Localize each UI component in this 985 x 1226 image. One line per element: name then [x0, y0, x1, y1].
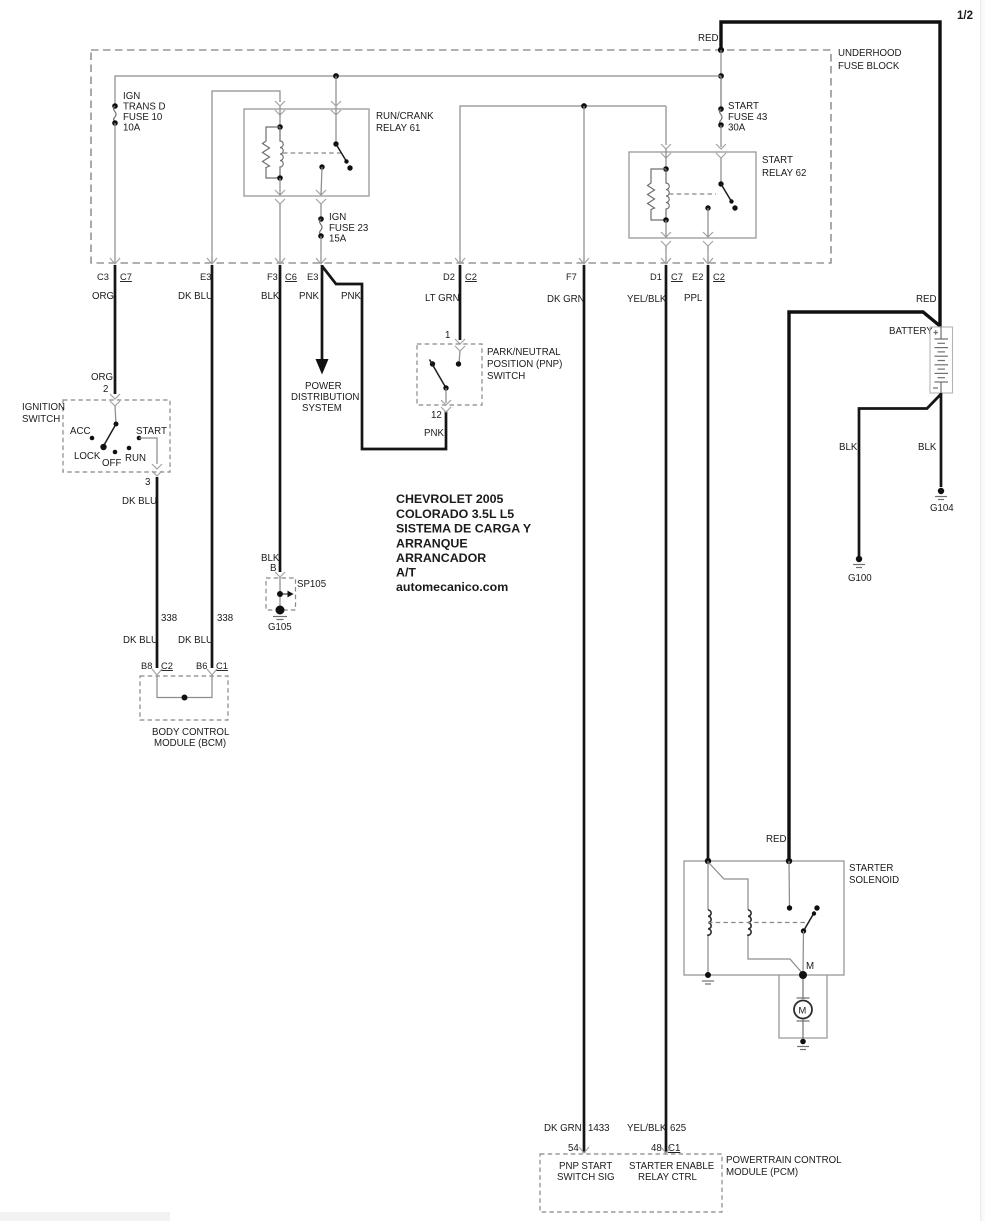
svg-text:338: 338	[217, 613, 233, 624]
svg-text:D2: D2	[443, 272, 455, 282]
actuator dashed link relay 62	[669, 193, 716, 195]
wire: motor to ground	[802, 1019, 804, 1039]
svg-text:STARTER ENABLE: STARTER ENABLE	[629, 1161, 715, 1172]
wire: LT GRN from D2/C2 to PNP pin 1	[459, 265, 462, 340]
svg-text:M: M	[806, 961, 814, 972]
wire: relay 62 switch output to box edge	[707, 208, 709, 237]
svg-text:DK GRN: DK GRN	[547, 294, 585, 305]
svg-text:DK GRN: DK GRN	[544, 1123, 582, 1134]
actuator dashed link solenoid	[708, 922, 806, 924]
svg-text:54: 54	[568, 1143, 579, 1154]
svg-text:IGNITION: IGNITION	[22, 402, 65, 413]
wire: run/crank relay switch feed drop	[335, 76, 337, 144]
wire: relay 62 coil bottom to box edge	[665, 220, 667, 237]
wire: run/crank relay coil feed net (E3 to relay pin)	[212, 91, 280, 263]
svg-text:B6: B6	[196, 661, 207, 671]
wire: BLK battery negative to G104	[940, 393, 943, 487]
relay U: RUN/CRANK RELAY 61 box	[244, 109, 369, 196]
node: splice junction with arrow	[277, 591, 283, 597]
svg-text:RUN/CRANK: RUN/CRANK	[376, 111, 434, 122]
svg-text:DK BLU: DK BLU	[178, 291, 213, 302]
switch S: PNP switch dashed box	[417, 344, 482, 405]
ground G104	[938, 488, 944, 494]
switch: relay 62 contacts	[720, 158, 722, 184]
arrowhead: to POWER DISTRIBUTION SYSTEM	[316, 359, 329, 375]
switch: relay 61 contacts	[333, 141, 338, 146]
ground: starter motor	[800, 1039, 806, 1045]
svg-text:F3: F3	[267, 272, 278, 282]
svg-text:COLORADO 3.5L L5: COLORADO 3.5L L5	[396, 507, 514, 521]
BCM dashed box	[140, 676, 228, 720]
svg-text:STARTER: STARTER	[849, 863, 893, 874]
BCM internal circuit	[157, 676, 212, 698]
node: BCM internal junction	[182, 695, 188, 701]
svg-text:PNK: PNK	[299, 291, 319, 302]
svg-text:IGN: IGN	[329, 212, 346, 223]
wire: F7 drop	[583, 106, 585, 263]
wire: PNK to power distribution (arrow)	[321, 265, 324, 361]
node: M terminal	[799, 971, 807, 979]
terminal marks: relay 62 top pin (coil)	[661, 144, 671, 158]
coil: relay 61 coil winding (right branch)	[280, 127, 283, 178]
svg-text:E3: E3	[307, 272, 318, 282]
terminal marks: relay 61 bottom pin (switch out)	[316, 190, 326, 204]
wire: relay 61 coil return to F3/C6 exit	[279, 204, 281, 263]
node: RED entry junction	[786, 858, 792, 864]
svg-text:SISTEMA DE CARGA Y: SISTEMA DE CARGA Y	[396, 522, 532, 536]
node: relay 62 coil top	[663, 166, 669, 172]
wire: ORG ignition feed	[114, 265, 117, 394]
svg-text:G104: G104	[930, 503, 954, 514]
wire: solenoid pull-in coil feed	[707, 861, 709, 910]
svg-text:TRANS D: TRANS D	[123, 102, 166, 113]
node: START position	[137, 436, 142, 441]
coil: relay 62 coil winding (right branch)	[666, 169, 669, 220]
svg-text:RUN: RUN	[125, 453, 146, 464]
svg-text:BODY CONTROL: BODY CONTROL	[152, 727, 230, 738]
svg-text:MODULE (BCM): MODULE (BCM)	[154, 738, 226, 749]
svg-text:M: M	[799, 1006, 807, 1016]
svg-text:START: START	[762, 155, 793, 166]
terminal chevron ignition pin 3	[152, 464, 162, 476]
terminal marks: relay 61 top pin (coil)	[275, 101, 285, 115]
svg-text:BLK: BLK	[839, 442, 858, 453]
svg-text:SYSTEM: SYSTEM	[302, 403, 342, 414]
svg-text:RELAY 61: RELAY 61	[376, 123, 420, 134]
terminal chevrons into BCM	[152, 669, 162, 675]
starter motor box	[779, 975, 827, 1038]
terminal marks: relay 61 bottom pin (coil)	[275, 190, 285, 204]
svg-text:RELAY CTRL: RELAY CTRL	[638, 1172, 697, 1183]
wire: PNP pin 12 stub	[445, 388, 447, 403]
wire: hold-in coil to ground	[707, 936, 709, 974]
svg-text:DK BLU: DK BLU	[178, 635, 213, 646]
svg-text:ARRANQUE: ARRANQUE	[396, 537, 468, 551]
node: F7 branch junction	[581, 103, 587, 109]
wire: solenoid output to M terminal	[802, 931, 805, 974]
svg-text:C2: C2	[465, 272, 477, 282]
wire: PNK crank feed to PNP switch pin 12	[322, 266, 446, 449]
wire: DK GRN PNP sense F7 to PCM 54	[583, 265, 586, 1153]
wire: DK BLU E3 to BCM	[211, 265, 214, 668]
svg-text:PNP START: PNP START	[559, 1161, 612, 1172]
svg-text:BLK: BLK	[918, 442, 937, 453]
svg-text:PNK: PNK	[424, 428, 444, 439]
wire: start relay coil feed stub	[665, 106, 667, 145]
svg-text:ORG: ORG	[92, 291, 114, 302]
starter solenoid box	[684, 861, 844, 975]
coil: solenoid pull-in winding	[748, 910, 751, 936]
svg-text:30A: 30A	[728, 123, 746, 134]
wire: relay 62 coil pin stub	[665, 149, 667, 169]
wire: relay 62 switch out to E2/C2 exit	[707, 246, 709, 263]
svg-text:BLK: BLK	[261, 291, 280, 302]
svg-text:C7: C7	[671, 272, 683, 282]
svg-text:338: 338	[161, 613, 177, 624]
wire: START contact to pin 3	[139, 438, 157, 464]
svg-text:START: START	[728, 101, 759, 112]
wire: relay 61 switch output down to IGN FUSE 23	[320, 204, 322, 219]
svg-text:RELAY 62: RELAY 62	[762, 168, 806, 179]
svg-text:OFF: OFF	[102, 458, 121, 469]
wire: internal supply bus y=76	[115, 76, 721, 106]
resistor: relay 61 suppression resistor (left branch)	[263, 127, 281, 178]
motor brush mark top	[797, 997, 810, 999]
terminal chevron PNP pin 12	[441, 400, 451, 412]
fuse: IGN TRANS D FUSE 10 10A	[112, 103, 118, 109]
node: PNP common contact	[430, 361, 435, 366]
svg-text:RED: RED	[766, 834, 786, 845]
svg-text:automecanico.com: automecanico.com	[396, 580, 508, 594]
wire: relay 62 coil return to D1/C7 exit	[665, 246, 667, 263]
svg-text:MODULE (PCM): MODULE (PCM)	[726, 1167, 798, 1178]
svg-text:SWITCH SIG: SWITCH SIG	[557, 1172, 615, 1183]
wire: RED battery feed, top run	[721, 22, 940, 327]
ground G105	[276, 606, 285, 615]
wire: pull-in coil to M terminal	[748, 936, 803, 974]
node: relay 61 coil top	[277, 124, 283, 130]
terminal marks: relay 62 top pin (switch)	[716, 144, 726, 158]
node: bus junction at x721	[718, 73, 724, 79]
node: PPL entry junction	[705, 858, 711, 864]
battery internal stub bottom	[940, 382, 942, 393]
svg-text:D1: D1	[650, 272, 662, 282]
svg-text:C7: C7	[120, 272, 132, 282]
node: ignition rotor pivot	[114, 422, 119, 427]
wire: relay 61 switch output to box edge	[321, 167, 322, 195]
svg-text:POWER: POWER	[305, 381, 342, 392]
svg-text:SWITCH: SWITCH	[22, 414, 60, 425]
terminal marks: relay 61 top pin (switch)	[331, 101, 341, 115]
page edge shading	[980, 0, 982, 1221]
svg-text:2: 2	[103, 384, 108, 395]
svg-text:FUSE 43: FUSE 43	[728, 112, 767, 123]
wire: fuse 23 output to E3 exit	[320, 236, 322, 263]
switch lever: PNP	[430, 360, 447, 389]
svg-text:DK BLU: DK BLU	[122, 496, 157, 507]
module: POWERTRAIN CONTROL MODULE (PCM) dashed box	[540, 1154, 722, 1212]
svg-text:ACC: ACC	[70, 426, 90, 437]
svg-text:625: 625	[670, 1123, 686, 1134]
svg-text:C2: C2	[713, 272, 725, 282]
resistor: relay 62 suppression resistor (left branch)	[648, 169, 667, 220]
svg-text:BATTERY: BATTERY	[889, 326, 933, 337]
svg-text:15A: 15A	[329, 234, 347, 245]
svg-text:LT GRN: LT GRN	[425, 293, 460, 304]
node: bus junction at x336 (run/crank relay switch feed)	[333, 73, 339, 79]
svg-text:UNDERHOOD: UNDERHOOD	[838, 48, 902, 59]
wire: RED battery to starter solenoid B	[789, 312, 940, 858]
battery plates	[935, 338, 949, 340]
svg-text:E2: E2	[692, 272, 703, 282]
svg-text:FUSE BLOCK: FUSE BLOCK	[838, 61, 900, 72]
svg-text:RED: RED	[916, 294, 936, 305]
wire: BLK battery negative to G100	[859, 394, 941, 556]
svg-text:PNK: PNK	[341, 291, 361, 302]
node: OFF position	[113, 450, 118, 455]
svg-text:ARRANCADOR: ARRANCADOR	[396, 551, 486, 565]
node: relay 61 coil bottom	[277, 175, 283, 181]
svg-text:C1: C1	[216, 661, 228, 671]
motor brush mark bottom	[797, 1020, 810, 1022]
wire: ignition rotor stub	[115, 406, 116, 424]
svg-text:POSITION (PNP): POSITION (PNP)	[487, 359, 562, 370]
svg-text:DK BLU: DK BLU	[123, 635, 158, 646]
wire: M to motor	[802, 979, 804, 999]
wire: BLK relay 61 coil ground	[279, 265, 282, 572]
battery - terminal	[933, 387, 938, 389]
svg-text:RED: RED	[698, 33, 718, 44]
terminal marks: relay 62 bottom pin (coil)	[661, 232, 671, 246]
terminal chevron PNP pin 1	[455, 339, 465, 351]
ground G100	[856, 556, 862, 562]
wire: PNP pin1 internal stub	[459, 351, 460, 364]
node: RUN position	[127, 446, 132, 451]
battery + terminal	[934, 330, 939, 335]
coil: solenoid hold-in winding	[708, 910, 711, 936]
wire: relay 61 coil bottom to box edge	[279, 178, 281, 195]
wire: solenoid hold-in branch	[709, 863, 748, 910]
svg-text:F7: F7	[566, 272, 577, 282]
fuse: START FUSE 43 30A	[720, 76, 722, 109]
svg-text:ORG: ORG	[91, 372, 113, 383]
terminal marks: relay 62 bottom pin (switch out)	[703, 232, 713, 246]
switch: solenoid contacts	[787, 905, 792, 910]
switch lever: ignition key (at LOCK)	[104, 424, 117, 446]
svg-text:C2: C2	[161, 661, 173, 671]
svg-text:PPL: PPL	[684, 293, 703, 304]
wire: PNP sense net (D2 to F7 and start relay coil)	[460, 106, 666, 263]
splice pack SP105 dashed box	[266, 578, 296, 610]
relay U: START RELAY 62 box	[629, 152, 756, 238]
switch S: IGNITION SWITCH dashed box	[63, 400, 170, 472]
svg-text:IGN: IGN	[123, 91, 140, 102]
svg-text:FUSE 23: FUSE 23	[329, 223, 368, 234]
svg-text:1/2: 1/2	[957, 10, 973, 22]
underhood fuse block dashed enclosure	[91, 50, 831, 263]
svg-text:G105: G105	[268, 622, 292, 633]
svg-text:C3: C3	[97, 272, 109, 282]
battery internal stub top	[940, 327, 942, 339]
terminal chevron ignition pin 2	[110, 394, 120, 406]
ground: solenoid case	[705, 972, 711, 978]
svg-text:10A: 10A	[123, 123, 141, 134]
fuse: IGN FUSE 23 15A	[318, 216, 324, 222]
svg-text:SOLENOID: SOLENOID	[849, 875, 899, 886]
wire: YEL/BLK starter enable D1/C7 to PCM 48	[665, 265, 668, 1153]
svg-text:FUSE 10: FUSE 10	[123, 112, 163, 123]
wire: fuse 10 output down to C3/C7 exit	[114, 123, 116, 263]
svg-text:DISTRIBUTION: DISTRIBUTION	[291, 392, 359, 403]
terminal chevron into SP105	[275, 572, 285, 577]
svg-text:PARK/NEUTRAL: PARK/NEUTRAL	[487, 347, 561, 358]
wire: PPL crank signal from E2/C2 to solenoid	[707, 265, 710, 858]
svg-text:G100: G100	[848, 573, 872, 584]
node: ACC position	[90, 436, 95, 441]
node: RED wire crossing fuse block boundary	[718, 47, 724, 53]
node: relay 62 coil bottom	[663, 217, 669, 223]
svg-text:YEL/BLK: YEL/BLK	[627, 1123, 667, 1134]
wire: relay 61 coil pin stub	[279, 106, 281, 127]
wire: DK BLU crank request, ignition to BCM	[156, 477, 159, 668]
exit chevrons at fuse block bottom edge	[110, 252, 120, 264]
svg-text:C6: C6	[285, 272, 297, 282]
svg-text:3: 3	[145, 477, 150, 488]
svg-text:START: START	[136, 426, 167, 437]
wire: splice internal	[279, 577, 281, 610]
svg-text:12: 12	[431, 410, 442, 421]
wire: solenoid contact feed (RED)	[788, 861, 791, 908]
svg-text:YEL/BLK: YEL/BLK	[627, 294, 667, 305]
wire: fuse 43 output to start relay	[720, 125, 722, 147]
svg-text:POWERTRAIN CONTROL: POWERTRAIN CONTROL	[726, 1155, 842, 1166]
svg-text:1433: 1433	[588, 1123, 610, 1134]
terminal chevrons into PCM	[579, 1147, 589, 1153]
node: PNP fixed contact	[456, 361, 461, 366]
svg-text:LOCK: LOCK	[74, 451, 101, 462]
svg-text:SWITCH: SWITCH	[487, 371, 525, 382]
svg-text:B8: B8	[141, 661, 152, 671]
wire: internal feed from RED entry down to bus	[720, 50, 722, 109]
svg-text:1: 1	[445, 330, 450, 341]
svg-text:48: 48	[651, 1143, 662, 1154]
svg-text:E3: E3	[200, 272, 211, 282]
svg-text:CHEVROLET 2005: CHEVROLET 2005	[396, 492, 504, 506]
motor M1: starter motor	[794, 1001, 812, 1019]
svg-text:A/T: A/T	[396, 566, 416, 580]
actuator dashed link relay 61	[283, 152, 342, 154]
svg-text:SP105: SP105	[297, 579, 326, 590]
